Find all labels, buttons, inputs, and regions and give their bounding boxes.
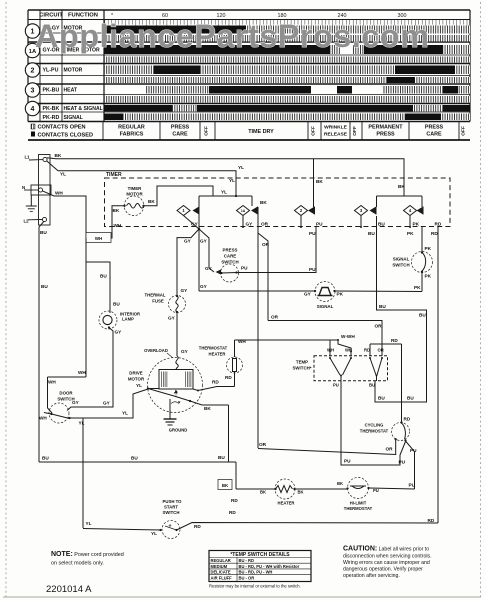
svg-text:THERMOSTAT: THERMOSTAT bbox=[199, 346, 228, 351]
contacts legend box bbox=[31, 124, 93, 139]
svg-text:BU - RD, PU - WH: BU - RD, PU - WH bbox=[239, 570, 273, 575]
svg-text:OVERLOAD: OVERLOAD bbox=[144, 348, 168, 353]
svg-text:CARE: CARE bbox=[426, 131, 442, 137]
feed tee to contacts 3 and 4 bbox=[314, 159, 423, 207]
svg-text:2201014 A: 2201014 A bbox=[46, 584, 92, 595]
terminal block L1/N/L2 bbox=[22, 155, 51, 226]
svg-text:YL: YL bbox=[60, 172, 66, 177]
svg-text:PK: PK bbox=[425, 246, 432, 251]
svg-text:BK: BK bbox=[204, 406, 211, 411]
svg-text:PERMANENT: PERMANENT bbox=[368, 124, 403, 130]
svg-text:RD: RD bbox=[435, 222, 442, 227]
RD wire temp switch to cycling thermostat bbox=[370, 338, 402, 423]
svg-text:RELEASE: RELEASE bbox=[324, 131, 348, 137]
svg-text:PUSH TO: PUSH TO bbox=[162, 499, 182, 504]
PU wire contact 2 to press care bbox=[237, 227, 317, 273]
svg-text:Wiring errors can cause improp: Wiring errors can cause improper and bbox=[343, 560, 430, 566]
svg-text:MEDIUM: MEDIUM bbox=[211, 564, 228, 569]
svg-text:YL: YL bbox=[151, 531, 157, 536]
svg-text:BU - OR: BU - OR bbox=[239, 575, 255, 580]
door switch bbox=[39, 391, 85, 426]
svg-text:PU: PU bbox=[333, 383, 339, 388]
GY junction below contact 1 bbox=[177, 228, 209, 296]
svg-text:RD: RD bbox=[364, 348, 370, 353]
svg-text:MOTOR: MOTOR bbox=[128, 377, 145, 382]
thermal fuse bbox=[144, 288, 188, 356]
heater bbox=[236, 479, 304, 506]
svg-text:BU: BU bbox=[113, 302, 120, 307]
OR wire to cycling thermostat bbox=[258, 440, 396, 455]
svg-text:PU: PU bbox=[344, 459, 351, 464]
svg-text:PK: PK bbox=[425, 274, 432, 279]
svg-text:SIGNAL: SIGNAL bbox=[317, 304, 334, 309]
timer contact 2 bbox=[295, 206, 316, 229]
svg-text:BU: BU bbox=[42, 456, 49, 461]
svg-text:SWITCH*: SWITCH* bbox=[292, 366, 311, 371]
svg-text:SIGNAL: SIGNAL bbox=[64, 115, 83, 121]
WH wire from neutral to timer motor bbox=[42, 191, 123, 243]
svg-text:TEMP: TEMP bbox=[296, 360, 308, 365]
svg-text:BK: BK bbox=[148, 199, 155, 204]
svg-text:SWITCH: SWITCH bbox=[163, 510, 180, 515]
motor ground bbox=[164, 399, 188, 433]
svg-text:BU: BU bbox=[378, 396, 385, 401]
chart header labels bbox=[39, 13, 98, 19]
svg-text:YL: YL bbox=[221, 190, 227, 195]
svg-text:on select models only.: on select models only. bbox=[51, 561, 104, 567]
signal switch bbox=[392, 227, 432, 292]
BU wire from contact 3 to temp switch bbox=[375, 216, 427, 402]
svg-text:THERMOSTAT: THERMOSTAT bbox=[344, 506, 373, 511]
svg-text:PU: PU bbox=[309, 231, 316, 236]
svg-text:PU: PU bbox=[373, 488, 379, 493]
svg-text:AIR FLUFF: AIR FLUFF bbox=[211, 575, 233, 580]
svg-text:GY: GY bbox=[246, 222, 254, 227]
svg-text:BU: BU bbox=[100, 274, 107, 279]
net labels under timer bbox=[191, 222, 442, 237]
svg-text:WH: WH bbox=[114, 223, 122, 228]
BU bottom horizontal bbox=[39, 405, 236, 489]
circuit wire color codes and function names bbox=[43, 26, 103, 122]
svg-text:operation after servicing.: operation after servicing. bbox=[343, 573, 400, 579]
svg-text:PK: PK bbox=[337, 292, 344, 297]
svg-text:PRESS: PRESS bbox=[376, 131, 395, 137]
svg-text:GY: GY bbox=[200, 284, 208, 289]
svg-text:RD: RD bbox=[194, 524, 201, 529]
svg-text:YL: YL bbox=[136, 383, 142, 388]
svg-text:FABRICS: FABRICS bbox=[120, 131, 144, 137]
svg-text:DELICATE: DELICATE bbox=[211, 570, 231, 575]
svg-text:1: 1 bbox=[31, 28, 35, 35]
timer motor bbox=[123, 186, 144, 216]
svg-text:PK-BU: PK-BU bbox=[43, 88, 60, 94]
svg-text:CARE: CARE bbox=[172, 131, 188, 137]
YL wire door switch to motor bbox=[70, 389, 149, 418]
svg-text:FUSE: FUSE bbox=[152, 299, 164, 304]
svg-text:YL: YL bbox=[122, 411, 128, 416]
svg-text:START: START bbox=[164, 505, 178, 510]
svg-text:BU: BU bbox=[368, 231, 375, 236]
svg-text:WRINKLE: WRINKLE bbox=[324, 124, 348, 130]
svg-text:GY: GY bbox=[181, 288, 189, 293]
svg-text:PK: PK bbox=[407, 231, 414, 236]
svg-text:BK: BK bbox=[55, 153, 62, 158]
svg-text:YL: YL bbox=[229, 178, 235, 183]
svg-text:RD: RD bbox=[225, 375, 232, 380]
svg-text:WH: WH bbox=[48, 380, 56, 385]
svg-text:YL: YL bbox=[238, 165, 244, 170]
svg-text:TIME DRY: TIME DRY bbox=[248, 129, 274, 135]
svg-text:SWITCH: SWITCH bbox=[392, 263, 409, 268]
RD wire from contact 4 down right side bbox=[428, 227, 439, 523]
thermostat heater bbox=[199, 339, 247, 387]
svg-text:PRESS: PRESS bbox=[223, 248, 238, 253]
timing bars row 3 bbox=[145, 86, 209, 94]
svg-text:PU: PU bbox=[399, 460, 406, 465]
svg-text:BU - RD: BU - RD bbox=[239, 558, 255, 563]
svg-text:BK: BK bbox=[398, 184, 405, 189]
svg-text:PRESS: PRESS bbox=[171, 124, 190, 130]
timing bars row 4 bbox=[172, 105, 197, 112]
svg-text:OR: OR bbox=[261, 222, 269, 227]
svg-text:THERMAL: THERMAL bbox=[144, 293, 165, 298]
svg-text:*TEMP SWITCH DETAILS: *TEMP SWITCH DETAILS bbox=[230, 552, 290, 558]
motor RD wire bbox=[193, 380, 235, 392]
BK line from L1 to timer contacts bbox=[47, 153, 406, 196]
push to start switch bbox=[83, 499, 182, 539]
note text bbox=[51, 551, 124, 567]
svg-text:OFF: OFF bbox=[311, 126, 317, 136]
svg-text:N: N bbox=[22, 185, 25, 190]
svg-text:WH: WH bbox=[345, 348, 352, 353]
svg-text:GY: GY bbox=[191, 222, 199, 227]
motor centrifugal switch bbox=[147, 387, 191, 403]
motor overload bbox=[144, 348, 189, 370]
svg-text:4: 4 bbox=[409, 208, 412, 213]
YL branch to push-to-start line bbox=[83, 418, 92, 528]
svg-text:BU: BU bbox=[378, 222, 385, 227]
temp switch box bbox=[292, 348, 387, 388]
svg-text:MOTOR: MOTOR bbox=[64, 68, 83, 74]
svg-text:dangerous operation. Verify pr: dangerous operation. Verify proper bbox=[343, 567, 423, 573]
cycle name cells bbox=[103, 122, 459, 141]
svg-text:LAMP: LAMP bbox=[122, 317, 134, 322]
svg-text:TIMER: TIMER bbox=[106, 172, 122, 178]
svg-text:PK: PK bbox=[414, 285, 421, 290]
circuit number circles bbox=[25, 24, 39, 116]
svg-text:RD: RD bbox=[404, 417, 411, 422]
PK wire buzzer to signal switch bbox=[335, 285, 423, 292]
svg-text:BU: BU bbox=[40, 230, 47, 235]
cycling thermostat bbox=[360, 417, 417, 454]
svg-text:AppliancePartsPros.com: AppliancePartsPros.com bbox=[35, 18, 429, 54]
WH wire down left side bbox=[48, 238, 87, 413]
svg-text:BU: BU bbox=[218, 455, 225, 460]
svg-text:OR: OR bbox=[271, 315, 279, 320]
svg-text:1A: 1A bbox=[241, 209, 246, 213]
svg-text:SWITCH: SWITCH bbox=[57, 397, 74, 402]
svg-text:WH: WH bbox=[55, 191, 63, 196]
svg-text:GY: GY bbox=[103, 401, 111, 406]
svg-text:YL: YL bbox=[79, 421, 85, 426]
svg-text:YL-PU: YL-PU bbox=[43, 68, 59, 74]
svg-text:BU: BU bbox=[41, 284, 48, 289]
svg-text:OR: OR bbox=[259, 442, 267, 447]
svg-text:3: 3 bbox=[31, 87, 35, 94]
svg-text:BK: BK bbox=[260, 490, 266, 495]
WH wire to temp switch bbox=[235, 334, 356, 357]
svg-text:GY: GY bbox=[304, 292, 312, 297]
svg-text:WH: WH bbox=[95, 236, 102, 241]
svg-text:WH: WH bbox=[327, 348, 334, 353]
ground at neutral bbox=[26, 195, 37, 212]
svg-text:BU: BU bbox=[131, 456, 138, 461]
svg-text:2: 2 bbox=[300, 208, 303, 213]
svg-text:NOTE: Power cord provided: NOTE: Power cord provided bbox=[51, 551, 124, 558]
GY wire to signal buzzer bbox=[199, 284, 315, 291]
drive motor bbox=[128, 358, 203, 413]
svg-text:PU: PU bbox=[316, 222, 323, 227]
svg-text:OFF: OFF bbox=[204, 126, 210, 136]
GY wire lamp to door switch bbox=[67, 328, 122, 411]
svg-text:HEAT: HEAT bbox=[64, 88, 78, 94]
svg-text:BK: BK bbox=[222, 483, 229, 488]
svg-text:CYCLING: CYCLING bbox=[365, 423, 384, 428]
svg-text:OFF: OFF bbox=[352, 126, 358, 136]
timing bars row 1A bbox=[330, 45, 340, 54]
svg-text:SWITCH: SWITCH bbox=[221, 260, 238, 265]
svg-text:TIMER: TIMER bbox=[128, 186, 142, 191]
svg-text:THERMOSTAT: THERMOSTAT bbox=[360, 429, 389, 434]
BU wire to interior lamp bbox=[86, 262, 120, 313]
svg-text:OFF: OFF bbox=[461, 126, 467, 136]
svg-text:DOOR: DOOR bbox=[59, 391, 73, 396]
svg-text:RD: RD bbox=[229, 510, 236, 515]
svg-text:WH: WH bbox=[39, 416, 47, 421]
svg-text:W-WH: W-WH bbox=[341, 334, 355, 339]
svg-text:REGULAR: REGULAR bbox=[211, 558, 231, 563]
svg-text:disconnection when servicing c: disconnection when servicing controls. bbox=[343, 554, 432, 560]
BU wire from L2 bbox=[39, 222, 48, 463]
svg-text:RD: RD bbox=[428, 518, 435, 523]
temp switch details table bbox=[209, 551, 311, 582]
svg-text:BK: BK bbox=[297, 490, 303, 495]
svg-text:GROUND: GROUND bbox=[169, 428, 188, 433]
svg-text:RD: RD bbox=[212, 380, 219, 385]
svg-text:OR: OR bbox=[386, 447, 394, 452]
motor BK wire bbox=[190, 401, 229, 411]
svg-text:BU: BU bbox=[379, 304, 386, 309]
svg-text:HEAT & SIGNAL: HEAT & SIGNAL bbox=[64, 106, 103, 112]
svg-text:PU: PU bbox=[309, 267, 316, 272]
svg-text:BK: BK bbox=[260, 200, 267, 205]
svg-text:GY: GY bbox=[184, 239, 192, 244]
YL line from L1 bbox=[47, 161, 252, 291]
timer chart table frame bbox=[28, 10, 470, 140]
svg-text:BU: BU bbox=[369, 383, 375, 388]
svg-text:1: 1 bbox=[182, 208, 185, 213]
RD wire push-to-start to contact 4 bbox=[177, 498, 439, 530]
svg-text:CAUTION: Label all wires prio: CAUTION: Label all wires prior to bbox=[343, 546, 429, 553]
svg-text:GY: GY bbox=[168, 316, 176, 321]
svg-text:GY: GY bbox=[205, 266, 213, 271]
svg-text:PK-BK: PK-BK bbox=[43, 106, 60, 112]
svg-text:YL: YL bbox=[86, 521, 92, 526]
svg-text:HEATER: HEATER bbox=[209, 352, 226, 357]
svg-text:PRESS: PRESS bbox=[425, 124, 444, 130]
svg-text:4: 4 bbox=[31, 106, 35, 113]
svg-text:RD: RD bbox=[431, 231, 438, 236]
svg-text:BK: BK bbox=[337, 481, 343, 486]
svg-text:CONTACTS OPEN: CONTACTS OPEN bbox=[38, 125, 86, 131]
timer contact 1A bbox=[237, 206, 259, 229]
svg-text:CARE: CARE bbox=[224, 254, 237, 259]
hi-limit thermostat bbox=[295, 478, 415, 512]
svg-text:2: 2 bbox=[31, 67, 35, 74]
svg-text:BK: BK bbox=[316, 179, 323, 184]
svg-text:BK: BK bbox=[113, 208, 120, 213]
svg-text:BU: BU bbox=[419, 313, 426, 318]
svg-text:BU - RD, PU - WH with Resistor: BU - RD, PU - WH with Resistor bbox=[239, 564, 300, 569]
svg-text:GY: GY bbox=[181, 349, 189, 354]
timer scale ruler bbox=[105, 20, 467, 26]
OR wire from contact 1A bbox=[258, 200, 382, 448]
svg-text:HI-LIMIT: HI-LIMIT bbox=[350, 501, 367, 506]
svg-text:WH: WH bbox=[78, 370, 86, 375]
svg-text:REGULAR: REGULAR bbox=[118, 124, 145, 130]
svg-text:DRIVE: DRIVE bbox=[129, 371, 142, 376]
caution text bbox=[343, 546, 432, 580]
svg-text:HEATER: HEATER bbox=[278, 501, 295, 506]
timer motor to YL wire bbox=[144, 186, 237, 206]
svg-text:CONTACTS CLOSED: CONTACTS CLOSED bbox=[38, 133, 94, 139]
timer contact 4 bbox=[404, 206, 424, 229]
svg-text:OR: OR bbox=[378, 348, 384, 353]
svg-text:GY: GY bbox=[200, 239, 208, 244]
svg-text:PU: PU bbox=[241, 266, 248, 271]
interior lamp bbox=[99, 311, 140, 329]
press care switch bbox=[205, 248, 248, 283]
timer contact 3 bbox=[355, 206, 377, 229]
svg-text:RD: RD bbox=[391, 338, 398, 343]
svg-text:PK-RD: PK-RD bbox=[43, 115, 60, 121]
timing bars row 2 bbox=[104, 66, 154, 75]
svg-text:3: 3 bbox=[360, 208, 363, 213]
svg-text:RD: RD bbox=[231, 498, 238, 503]
svg-text:OR: OR bbox=[375, 324, 383, 329]
timer contact 1 bbox=[177, 206, 200, 230]
svg-text:L2: L2 bbox=[24, 219, 30, 224]
svg-text:PK: PK bbox=[413, 222, 420, 227]
svg-text:SIGNAL: SIGNAL bbox=[393, 257, 410, 262]
svg-text:BU: BU bbox=[407, 396, 414, 401]
timing bars row 1 bbox=[246, 26, 470, 34]
svg-text:OR: OR bbox=[262, 242, 270, 247]
svg-text:L1: L1 bbox=[25, 155, 31, 160]
signal buzzer bbox=[304, 282, 344, 310]
PU wires at cycling thermostat bbox=[341, 381, 416, 489]
svg-text:GY: GY bbox=[115, 330, 123, 335]
BK boxed label bbox=[218, 480, 232, 490]
svg-text:MOTOR: MOTOR bbox=[126, 192, 143, 197]
timer dashed box bbox=[105, 178, 451, 227]
svg-text:Resistor may be internal or ex: Resistor may be internal or external to … bbox=[209, 584, 301, 589]
svg-text:PU: PU bbox=[409, 483, 416, 488]
